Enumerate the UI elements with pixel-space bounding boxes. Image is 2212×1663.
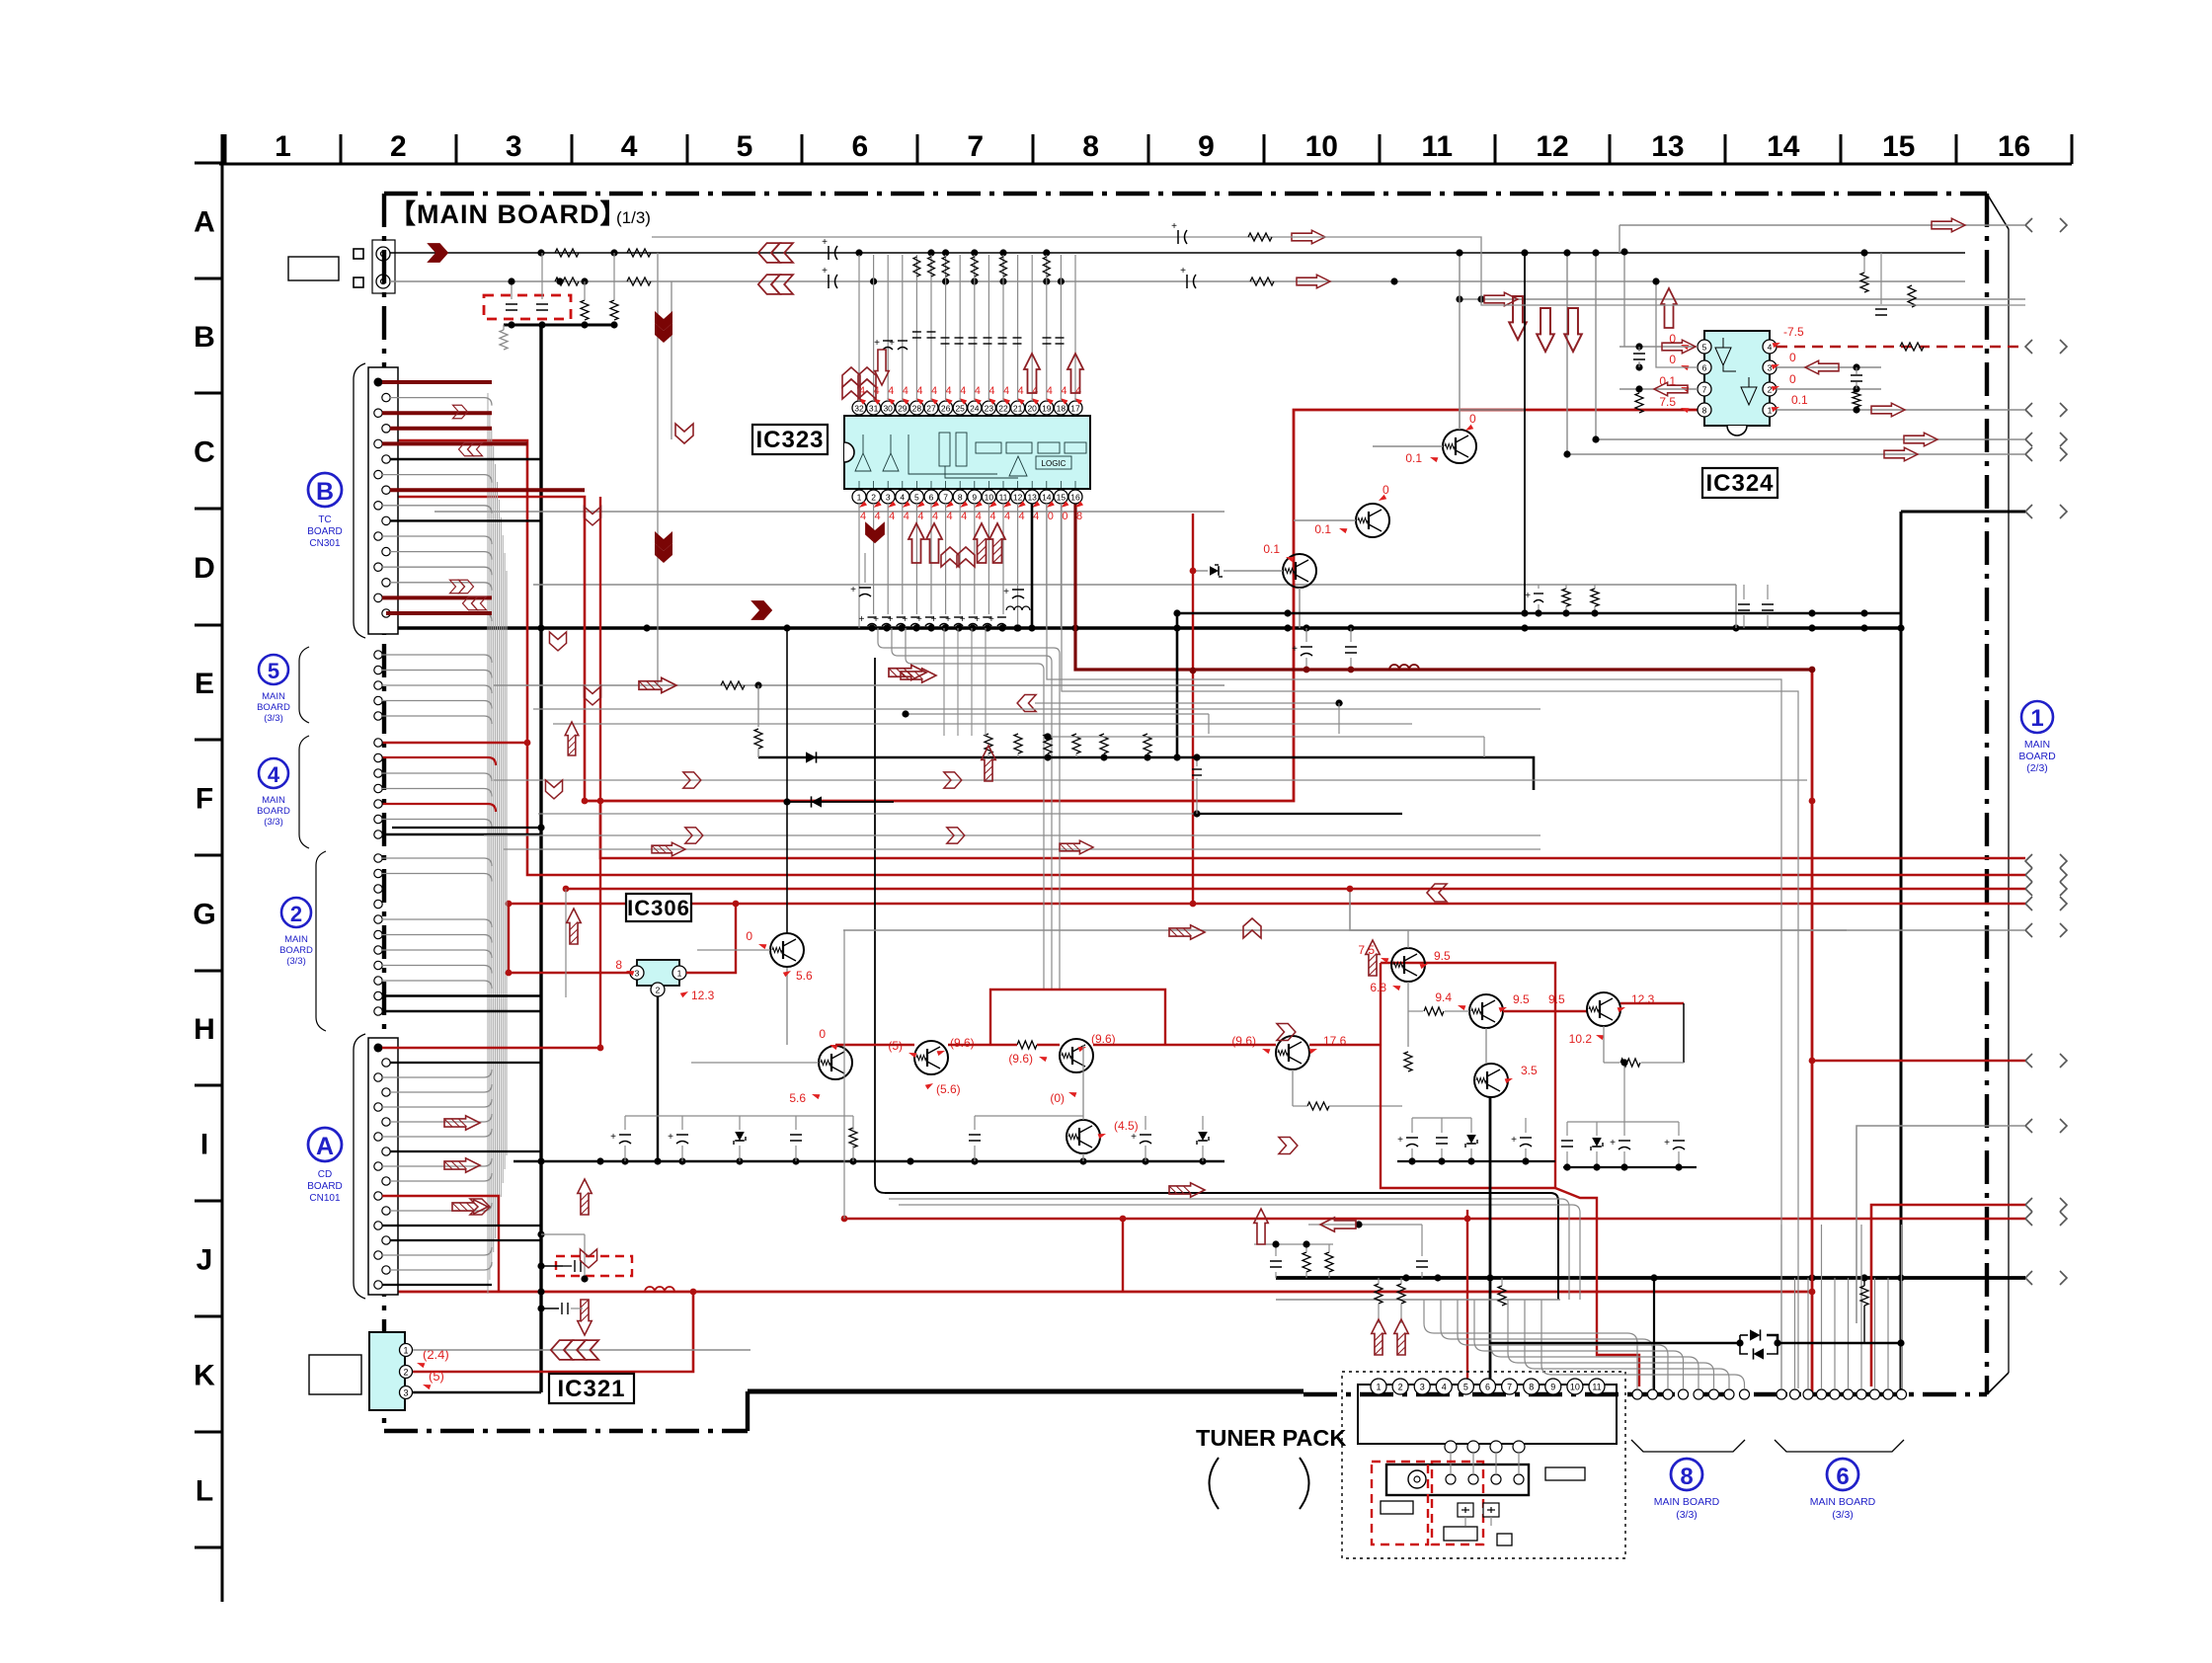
svg-text:6: 6 bbox=[1702, 363, 1707, 373]
gray wire 460 to off-page bbox=[1567, 453, 2025, 455]
resistor to gnd 2 bbox=[610, 300, 618, 320]
arrows row E right bbox=[901, 669, 936, 682]
connector group 4 bracket bbox=[299, 736, 309, 848]
wire bbox=[390, 1150, 541, 1152]
wire bbox=[390, 1239, 541, 1241]
pin bbox=[374, 900, 382, 908]
wire QG1 base bbox=[697, 949, 770, 951]
capacitor bbox=[1406, 1137, 1418, 1139]
IC324 label bbox=[1702, 468, 1777, 498]
svg-text:4: 4 bbox=[888, 385, 894, 397]
svg-text:4: 4 bbox=[875, 511, 881, 522]
svg-text:9.5: 9.5 bbox=[1548, 992, 1565, 1006]
svg-text:+: + bbox=[859, 614, 865, 625]
svg-text:4: 4 bbox=[946, 385, 952, 397]
vertical 768 bbox=[757, 685, 759, 727]
res 285 bbox=[1250, 277, 1274, 285]
IC323 pin ticks bbox=[859, 481, 1075, 488]
red vertical 1137 bbox=[1122, 1219, 1124, 1292]
jack pad square 2 bbox=[354, 277, 363, 287]
connector CN101 bracket bbox=[354, 1034, 365, 1299]
wire IC321 pin1 bbox=[413, 1349, 750, 1351]
wire CN301 pin16 to gnd bus bbox=[386, 611, 492, 615]
IC323 body bbox=[844, 416, 1090, 489]
bracket 6 bbox=[1775, 1440, 1904, 1452]
cap 285 bbox=[1186, 275, 1188, 288]
wire bbox=[382, 1099, 492, 1107]
svg-text:(5): (5) bbox=[429, 1369, 444, 1384]
white box K1 bbox=[309, 1355, 361, 1394]
wire bbox=[382, 536, 492, 544]
wire bbox=[382, 380, 492, 384]
resistor QG4 base bbox=[1017, 1041, 1037, 1049]
resistor R input 4 bbox=[627, 277, 651, 285]
CN101 pin 10 bbox=[382, 1177, 390, 1185]
wire bbox=[390, 552, 492, 560]
svg-text:IC321: IC321 bbox=[557, 1376, 625, 1402]
svg-text:14: 14 bbox=[1767, 130, 1800, 163]
CN301 pin 15 bbox=[374, 594, 382, 601]
svg-text:2: 2 bbox=[871, 493, 876, 503]
arrow 445 bbox=[1904, 433, 1937, 446]
gray wire 303 to off-page bbox=[1460, 298, 2025, 300]
svg-text:17: 17 bbox=[1070, 404, 1080, 414]
vertical gray feed IC324 pin6 bbox=[1656, 281, 1698, 367]
capacitor bbox=[1561, 1140, 1573, 1142]
red bus G transistor row bbox=[835, 1044, 894, 1046]
grid ruler left bbox=[195, 134, 222, 1602]
svg-text:A: A bbox=[316, 1133, 334, 1160]
gray feedback QH9 bbox=[1604, 1062, 1619, 1064]
zener bbox=[1197, 1132, 1209, 1145]
svg-text:BOARD: BOARD bbox=[2018, 751, 2056, 762]
svg-text:10: 10 bbox=[1305, 130, 1338, 163]
arrows A connector area bbox=[444, 1116, 480, 1130]
wire bbox=[390, 1062, 541, 1064]
big arrows below bus right bbox=[1509, 296, 1527, 340]
CN301 pin 1 bbox=[374, 378, 383, 387]
resistors above black L bbox=[985, 734, 992, 753]
CN101 pin 17 bbox=[374, 1281, 382, 1289]
IC324 body bbox=[1704, 331, 1770, 436]
CN301 pin 5 bbox=[374, 439, 382, 447]
wire R-ch input row A bbox=[390, 280, 1965, 282]
gray wires row E bbox=[494, 684, 1224, 686]
pin bbox=[374, 915, 382, 923]
svg-text:A: A bbox=[194, 206, 215, 239]
svg-text:4: 4 bbox=[960, 385, 966, 397]
svg-text:4: 4 bbox=[932, 511, 938, 522]
arrows F bbox=[683, 772, 701, 788]
grid column numbers bbox=[275, 130, 2030, 163]
svg-text:MAIN: MAIN bbox=[262, 691, 285, 702]
svg-text:5: 5 bbox=[1463, 1383, 1468, 1392]
arrow pin1 bbox=[1871, 403, 1905, 417]
svg-text:4: 4 bbox=[1003, 385, 1009, 397]
svg-text:4: 4 bbox=[931, 385, 937, 397]
svg-text:8: 8 bbox=[1702, 406, 1707, 416]
resistor R input 3 bbox=[555, 277, 579, 285]
gray drop to cluster2 bbox=[1623, 1063, 1625, 1122]
gray link H bbox=[625, 1115, 853, 1117]
red loop right transistors bbox=[1381, 963, 1555, 1188]
red vertical tuner 5 bbox=[1466, 1210, 1468, 1219]
svg-text:+: + bbox=[668, 1132, 673, 1143]
wire IC324 pin1 to off-page bbox=[1777, 409, 2025, 411]
svg-text:+: + bbox=[902, 614, 908, 625]
transistor QH7 bbox=[1391, 948, 1425, 982]
transistor QG1 bbox=[770, 933, 804, 967]
wire bbox=[382, 567, 492, 575]
capacitor bbox=[1140, 1134, 1151, 1136]
svg-text:3: 3 bbox=[506, 130, 522, 163]
cap pin3-2 bbox=[1851, 374, 1862, 376]
svg-text:+: + bbox=[1664, 1138, 1670, 1148]
arrow row D mid bbox=[750, 600, 772, 620]
svg-text:5.6: 5.6 bbox=[796, 969, 813, 983]
blue ref A CD BOARD CN101 bbox=[307, 1128, 343, 1204]
svg-text:(3/3): (3/3) bbox=[286, 956, 306, 967]
svg-text:6.8: 6.8 bbox=[1370, 981, 1386, 994]
svg-text:4: 4 bbox=[961, 511, 967, 522]
red wire group4 pin5 bbox=[382, 804, 496, 812]
vertical gray feed IC324 pin5 bbox=[1623, 252, 1625, 347]
svg-text:4: 4 bbox=[976, 511, 982, 522]
red dashed box tuner 1 bbox=[1372, 1462, 1428, 1544]
wire QG5 down bbox=[1082, 1153, 1084, 1161]
wire bbox=[390, 1262, 492, 1270]
svg-text:4: 4 bbox=[917, 511, 923, 522]
cap cluster in loop bbox=[1397, 1160, 1555, 1162]
black bus bottom row K bbox=[1276, 1276, 2025, 1280]
resistor 1936 vertical bbox=[1908, 285, 1916, 307]
svg-text:C: C bbox=[194, 436, 215, 469]
wire bbox=[382, 685, 492, 693]
CN101 pin 14 bbox=[382, 1236, 390, 1244]
red wire IC306 pin3 bbox=[509, 972, 630, 974]
blue ref 2 bbox=[279, 898, 313, 967]
CN101 pin 13 bbox=[374, 1222, 382, 1229]
svg-text:9.5: 9.5 bbox=[1434, 949, 1451, 963]
wire bbox=[390, 398, 492, 406]
gray line 824 bbox=[538, 813, 1195, 815]
coupling cap L bbox=[828, 246, 829, 260]
wire bbox=[390, 1173, 492, 1181]
wire bbox=[382, 1158, 492, 1166]
gray verticals col8 bbox=[943, 628, 945, 736]
svg-text:4: 4 bbox=[1442, 1383, 1447, 1392]
red branch IC324 pin8 bbox=[585, 410, 1704, 801]
wire bbox=[382, 935, 492, 943]
transistor QG2 bbox=[819, 1046, 852, 1079]
wire bbox=[382, 1247, 492, 1255]
resistor QH7 bbox=[1404, 1052, 1412, 1071]
svg-text:8: 8 bbox=[1076, 511, 1082, 522]
wire harness bundle vertical bbox=[488, 393, 507, 1294]
resistor R input 1 bbox=[555, 249, 579, 257]
svg-text:7: 7 bbox=[1702, 385, 1707, 395]
CN301 pin 11 bbox=[374, 532, 382, 540]
wire Q D down bbox=[1299, 588, 1301, 628]
IC323 internals bbox=[855, 433, 1086, 478]
svg-text:4: 4 bbox=[947, 511, 953, 522]
arrow E1 bbox=[639, 677, 676, 692]
gray wire down col6 a bbox=[657, 253, 659, 685]
svg-text:CD: CD bbox=[318, 1169, 332, 1180]
black segment 824 bbox=[1195, 813, 1402, 815]
black L bus right bbox=[758, 757, 1534, 790]
cap cluster right 2 bbox=[1563, 1166, 1697, 1168]
IC324 internals bbox=[1715, 338, 1757, 405]
black wire F2 bbox=[787, 801, 894, 803]
svg-text:4: 4 bbox=[988, 385, 994, 397]
CN301 pin 4 bbox=[382, 425, 390, 433]
CN101 pin 6 bbox=[382, 1118, 390, 1126]
transistor QH9 bbox=[1587, 992, 1620, 1026]
wire bbox=[382, 950, 492, 958]
arrows col4 down bbox=[655, 311, 672, 343]
arrow pin5 bbox=[1662, 340, 1696, 354]
red vertical col9 bbox=[1192, 514, 1194, 904]
svg-text:9: 9 bbox=[1198, 130, 1215, 163]
svg-text:+: + bbox=[988, 614, 994, 625]
gray J row wires bbox=[889, 1199, 1569, 1300]
tuner small rect 4 bbox=[1497, 1534, 1512, 1545]
svg-text:4: 4 bbox=[1061, 385, 1066, 397]
wire bbox=[390, 1084, 492, 1092]
svg-text:10: 10 bbox=[1570, 1383, 1580, 1392]
red bus row J bbox=[378, 1291, 1812, 1294]
grid row letters bbox=[193, 206, 215, 1508]
black wire IC306 pin2 bbox=[657, 996, 659, 1161]
gray row F2b bbox=[504, 848, 1540, 850]
svg-text:3.5: 3.5 bbox=[1521, 1064, 1538, 1077]
svg-text:+: + bbox=[1511, 1135, 1517, 1146]
svg-text:(5.6): (5.6) bbox=[936, 1082, 961, 1096]
pin bbox=[374, 712, 382, 720]
resistor pin7 gnd bbox=[1635, 393, 1643, 413]
wire bbox=[382, 411, 492, 415]
off-page connector symbols right edge bbox=[2025, 218, 2067, 1285]
wire bbox=[382, 655, 492, 663]
coupling cap R bbox=[828, 275, 829, 288]
svg-text:0: 0 bbox=[1789, 372, 1796, 386]
svg-text:9: 9 bbox=[1550, 1383, 1555, 1392]
vertical 1478 bbox=[1459, 253, 1461, 430]
svg-text:IC306: IC306 bbox=[627, 896, 690, 920]
wire IC324 pin5 bbox=[1619, 346, 1698, 348]
arrows IC323 top bbox=[842, 367, 860, 399]
svg-text:D: D bbox=[194, 552, 215, 585]
svg-text:31: 31 bbox=[869, 404, 879, 414]
svg-text:+: + bbox=[960, 614, 966, 625]
svg-text:4: 4 bbox=[900, 493, 905, 503]
tuner gnd symbols bbox=[1458, 1503, 1473, 1517]
arrow 228 bbox=[1932, 218, 1965, 232]
svg-text:22: 22 bbox=[998, 404, 1008, 414]
svg-text:B: B bbox=[316, 478, 334, 506]
svg-text:13: 13 bbox=[1027, 493, 1037, 503]
cap J2 bbox=[561, 1303, 563, 1314]
black bus row D-E horizontal bbox=[392, 626, 1901, 630]
zener diode row D bbox=[1210, 566, 1219, 576]
IC306 label bbox=[626, 894, 691, 921]
red bus row I-J long bbox=[844, 1218, 2025, 1221]
jack pad square 1 bbox=[354, 249, 363, 259]
resistor pin2 gnd bbox=[1853, 391, 1860, 407]
border step bbox=[746, 1391, 750, 1431]
svg-text:30: 30 bbox=[883, 404, 893, 414]
gray link loop cluster bbox=[1412, 1117, 1471, 1119]
arrows mid right bbox=[1169, 925, 1205, 939]
svg-text:8: 8 bbox=[615, 958, 622, 972]
svg-text:19: 19 bbox=[1042, 404, 1052, 414]
CN301 pin 14 bbox=[382, 579, 390, 587]
arrow E2 bbox=[889, 665, 926, 679]
svg-text:+: + bbox=[610, 1132, 616, 1143]
resistor bbox=[849, 1128, 857, 1148]
wire bbox=[390, 1114, 492, 1122]
svg-text:1: 1 bbox=[403, 1346, 408, 1356]
wire bbox=[382, 716, 492, 724]
pin bbox=[374, 739, 382, 747]
svg-text:+: + bbox=[1131, 1132, 1137, 1143]
svg-text:F: F bbox=[196, 783, 213, 816]
svg-text:+: + bbox=[850, 585, 856, 595]
svg-text:1: 1 bbox=[1376, 1383, 1381, 1392]
blue ref B TC BOARD CN301 bbox=[307, 473, 343, 549]
wire L-ch input row A bbox=[390, 252, 1965, 254]
harness to tuner pins bbox=[1424, 1300, 1745, 1388]
resistor below gnd bbox=[500, 330, 508, 350]
svg-text:8: 8 bbox=[1082, 130, 1099, 163]
svg-text:I: I bbox=[200, 1129, 208, 1161]
svg-text:2: 2 bbox=[656, 986, 661, 995]
svg-text:7.5: 7.5 bbox=[1659, 395, 1676, 409]
arrows F2 bbox=[652, 842, 685, 856]
resistor E bbox=[721, 681, 745, 689]
IC323 bottom pin wires bbox=[859, 504, 1061, 628]
svg-text:18: 18 bbox=[1057, 404, 1066, 414]
gray vertical drop bbox=[1735, 585, 1737, 628]
wire bbox=[382, 789, 492, 797]
IC321 label bbox=[549, 1374, 634, 1403]
svg-text:+: + bbox=[1610, 1138, 1616, 1148]
svg-text:10: 10 bbox=[985, 493, 994, 503]
red wire B pin5 vertical bbox=[398, 440, 2025, 875]
wire bbox=[382, 919, 492, 927]
diode pair black bbox=[1490, 1342, 1740, 1345]
CN301 pin 6 bbox=[382, 455, 390, 463]
off board pin row group 8 bbox=[1632, 1389, 1750, 1399]
cap right of IC324 bbox=[1875, 308, 1887, 310]
svg-text:4: 4 bbox=[1768, 343, 1773, 353]
svg-text:IC324: IC324 bbox=[1705, 470, 1774, 497]
IC323 gnd pin13 wire bbox=[1031, 504, 1034, 628]
svg-text:4: 4 bbox=[903, 385, 908, 397]
black wire CN101 17 bottom bbox=[382, 1284, 492, 1286]
svg-text:21: 21 bbox=[1013, 404, 1023, 414]
svg-text:9.5: 9.5 bbox=[1513, 992, 1530, 1006]
CN101 pin 8 bbox=[382, 1148, 390, 1155]
gray wire to off-page 1140 bbox=[1856, 1126, 2025, 1323]
svg-text:7: 7 bbox=[943, 493, 948, 503]
connector CN101 body bbox=[368, 1038, 398, 1295]
CN101 pin 1 bbox=[374, 1044, 383, 1053]
border corner cut bottom right bbox=[1987, 1373, 2009, 1394]
svg-text:15: 15 bbox=[1057, 493, 1066, 503]
red bump G bbox=[990, 990, 1165, 1045]
IC323 pins bbox=[852, 401, 1082, 504]
svg-text:0: 0 bbox=[1382, 483, 1389, 497]
svg-text:32: 32 bbox=[854, 404, 864, 414]
gray wire row C bbox=[434, 511, 1224, 513]
svg-text:4: 4 bbox=[1033, 511, 1039, 522]
CN301 pin 10 bbox=[382, 516, 390, 524]
arrows B connector area bbox=[453, 405, 468, 419]
red dashed highlight box B3 bbox=[484, 295, 571, 319]
svg-text:E: E bbox=[195, 668, 214, 700]
pin bbox=[374, 991, 382, 999]
arrow up left of IC324 bbox=[1661, 288, 1677, 328]
vertical 1544 bbox=[1524, 253, 1526, 613]
capacitor bbox=[676, 1134, 688, 1136]
capacitor bbox=[1520, 1137, 1532, 1139]
svg-text:5: 5 bbox=[1702, 343, 1707, 353]
wire bbox=[382, 1225, 541, 1227]
svg-text:+: + bbox=[888, 614, 894, 625]
resistor QH8 base bbox=[1424, 1007, 1444, 1015]
svg-text:26: 26 bbox=[941, 404, 951, 414]
resistor K right bbox=[1860, 1286, 1868, 1306]
svg-text:MAIN BOARD: MAIN BOARD bbox=[1810, 1496, 1876, 1508]
RCA jack connector bbox=[372, 240, 395, 293]
connector group 5 bracket bbox=[299, 647, 309, 723]
svg-text:BOARD: BOARD bbox=[257, 806, 290, 817]
pin bbox=[374, 769, 382, 777]
cap between bbox=[1633, 353, 1645, 355]
gray J stub bbox=[541, 1233, 585, 1235]
wire bbox=[382, 595, 492, 599]
arrow group left column bbox=[758, 243, 793, 263]
svg-text:TUNER PACK: TUNER PACK bbox=[1196, 1425, 1346, 1451]
svg-text:TC: TC bbox=[318, 515, 331, 525]
vertical taps right bbox=[1566, 253, 1568, 454]
svg-text:7: 7 bbox=[1507, 1383, 1512, 1392]
blue ref 4 bbox=[257, 758, 290, 828]
CN101 pin 15 bbox=[374, 1251, 382, 1259]
gray row F bbox=[494, 779, 1807, 781]
wire QH8 down bbox=[1485, 1028, 1487, 1064]
arrow tuner up bbox=[1254, 1209, 1268, 1244]
diode row F1 bbox=[806, 752, 817, 762]
svg-text:6: 6 bbox=[929, 493, 934, 503]
main board dash-dot border right bbox=[1985, 194, 1989, 1394]
svg-text:4: 4 bbox=[268, 762, 280, 787]
gray corner 228 bbox=[1619, 225, 1620, 253]
capacitors on IC323 top wires bbox=[883, 340, 893, 342]
resistor QH9 fb bbox=[1620, 1059, 1640, 1067]
gray wire 240 bbox=[652, 237, 2025, 305]
gray wire gnd D bbox=[533, 584, 1736, 586]
CN301 pin 9 bbox=[374, 502, 382, 510]
tuner area components bbox=[1270, 1260, 1282, 1262]
CN301 pin 16 bbox=[382, 609, 390, 617]
svg-text:8: 8 bbox=[958, 493, 963, 503]
signal arrow input bbox=[427, 243, 448, 263]
svg-text:12: 12 bbox=[1013, 493, 1023, 503]
transistor QH10 bbox=[1474, 1064, 1508, 1097]
